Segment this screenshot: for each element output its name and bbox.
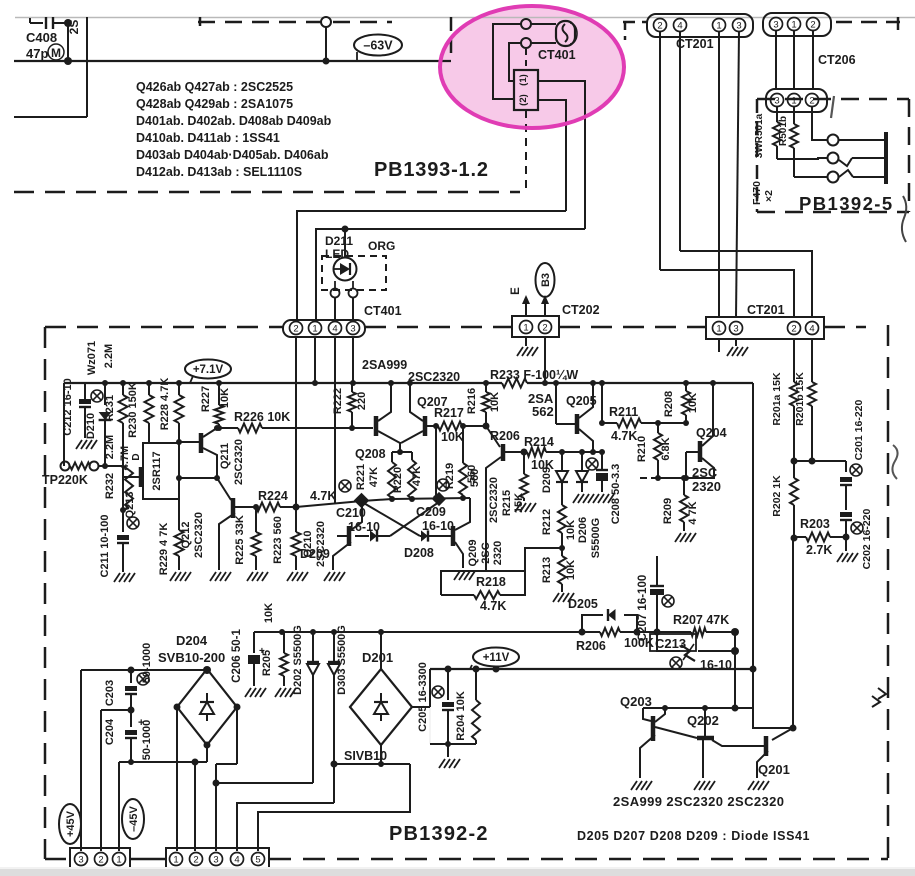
capacitor C212 xyxy=(84,383,86,401)
diode D208 xyxy=(420,535,421,537)
svg-text:D206: D206 xyxy=(577,517,589,543)
svg-text:D205: D205 xyxy=(568,597,598,611)
resistor R219 xyxy=(459,463,467,495)
wire vertical branch xyxy=(86,17,88,117)
wire C211 column xyxy=(122,466,124,532)
svg-text:2.2M: 2.2M xyxy=(103,344,115,368)
svg-text:2320: 2320 xyxy=(492,541,504,565)
node -63V xyxy=(354,35,402,56)
transistor Q203 xyxy=(643,708,651,721)
svg-text:C408: C408 xyxy=(26,30,57,45)
wire sivb line xyxy=(334,763,410,765)
board PB1393 right edge dashed xyxy=(450,17,453,61)
pin 2 xyxy=(539,321,552,334)
resistor R229 xyxy=(178,478,180,530)
svg-text:4: 4 xyxy=(234,854,239,865)
ground C211 xyxy=(114,573,120,582)
ground Q203 xyxy=(631,781,637,790)
svg-text:R214: R214 xyxy=(524,435,554,449)
wire -45 rail xyxy=(119,761,207,763)
svg-text:3: 3 xyxy=(736,20,741,31)
svg-text:D209: D209 xyxy=(300,547,330,561)
node +11V xyxy=(473,648,519,667)
pin circle lower xyxy=(521,38,531,48)
arrow E xyxy=(525,302,527,317)
wire CT202-2 down xyxy=(544,337,546,383)
board PB1392-2 left edge xyxy=(44,327,47,859)
wire R212-R213 xyxy=(561,533,563,556)
ground R229 xyxy=(170,572,176,581)
board PB1393 bottom edge dashed xyxy=(14,191,520,194)
svg-text:10K: 10K xyxy=(687,393,699,413)
resistor R211 xyxy=(617,419,641,428)
svg-text:R223 560: R223 560 xyxy=(272,516,284,564)
svg-text:D403ab D404ab·D405ab. D406ab: D403ab D404ab·D405ab. D406ab xyxy=(136,148,329,162)
oplus D210 xyxy=(91,390,103,402)
wire bridge2 bottom xyxy=(380,745,382,764)
pin 3 xyxy=(210,853,223,866)
switch contact S1 xyxy=(828,135,839,146)
capacitor C205 xyxy=(447,669,449,700)
svg-text:R219: R219 xyxy=(444,463,456,489)
wire collector bus xyxy=(643,707,753,709)
pin 1 xyxy=(788,94,801,107)
wire pin3 down xyxy=(352,337,354,383)
svg-text:Q209: Q209 xyxy=(467,540,479,567)
ground C205 xyxy=(447,744,449,757)
svg-text:C205 16-3300: C205 16-3300 xyxy=(417,662,429,732)
svg-text:–45V: –45V xyxy=(128,805,140,831)
resistor R225 xyxy=(255,507,257,532)
wire -63V bus xyxy=(14,60,451,62)
wire R211 line xyxy=(602,422,617,424)
svg-text:R224: R224 xyxy=(258,489,288,503)
svg-text:ORG: ORG xyxy=(368,239,395,253)
scan edge line xyxy=(15,17,915,19)
capacitor C209 xyxy=(432,492,446,506)
svg-text:2: 2 xyxy=(293,323,298,334)
connector CT201 top xyxy=(647,14,753,37)
svg-text:×2: ×2 xyxy=(763,190,775,202)
wire mid step xyxy=(525,548,562,571)
wire pin4 down xyxy=(334,337,336,503)
transistor Q205 xyxy=(575,414,580,434)
ground R203 xyxy=(845,537,847,551)
switch contact S3 xyxy=(828,172,839,183)
pin 3 xyxy=(75,853,88,866)
svg-text:2SR117: 2SR117 xyxy=(151,451,163,490)
wire R216 junction xyxy=(483,423,490,430)
board PB1392-2 right edge xyxy=(887,325,890,859)
svg-text:Q203: Q203 xyxy=(620,694,652,709)
svg-text:1: 1 xyxy=(716,323,721,334)
board PB1392-5 edge xyxy=(757,98,909,101)
led pin b xyxy=(349,289,358,298)
resistor R201a xyxy=(793,339,795,382)
resistor R205 xyxy=(283,632,285,653)
capacitor C202 xyxy=(840,512,852,517)
connector CT206 lower xyxy=(766,89,827,112)
svg-text:D201: D201 xyxy=(362,650,393,665)
transistor Q208 xyxy=(374,416,379,436)
svg-text:562: 562 xyxy=(532,404,554,419)
label C213 xyxy=(650,634,696,651)
oplus D207 xyxy=(586,458,598,470)
wire main 632 bus xyxy=(254,631,600,633)
connector CN3 xyxy=(70,848,130,870)
svg-text:R233 F-100¼W: R233 F-100¼W xyxy=(490,368,578,382)
oplus C211 xyxy=(127,517,139,529)
svg-text:2SC2320: 2SC2320 xyxy=(193,512,205,558)
svg-text:220: 220 xyxy=(356,392,368,410)
switch lever S3 xyxy=(839,170,853,177)
svg-text:Q426ab Q427ab : 2SC2525: Q426ab Q427ab : 2SC2525 xyxy=(136,80,293,94)
svg-text:R205: R205 xyxy=(261,650,273,676)
svg-text:R202 1K: R202 1K xyxy=(771,475,783,517)
svg-text:1: 1 xyxy=(312,323,317,334)
svg-text:4.7K: 4.7K xyxy=(310,489,336,503)
wire trio bottoms xyxy=(296,498,470,507)
wire switch2 feed xyxy=(777,158,827,159)
resistor R218 xyxy=(474,591,500,599)
svg-text:47K: 47K xyxy=(411,466,423,486)
wire pin3 down xyxy=(736,31,739,318)
svg-text:5: 5 xyxy=(255,854,260,865)
board PB1392-2 bottom edge xyxy=(45,858,70,861)
wire plug loop upper xyxy=(493,24,521,99)
wire cross a xyxy=(362,502,420,536)
svg-text:3: 3 xyxy=(213,854,218,865)
wire conn1 up xyxy=(118,762,120,851)
svg-text:2: 2 xyxy=(791,323,796,334)
svg-text:1: 1 xyxy=(116,854,121,865)
wire cap col xyxy=(845,461,847,472)
pin 4 xyxy=(674,19,687,32)
connector CT202 xyxy=(512,316,559,337)
wire trio top xyxy=(391,452,393,462)
wire bus to CT401-2 xyxy=(297,211,566,321)
transistor Q213 xyxy=(143,443,179,499)
wire R226 line xyxy=(219,427,238,429)
board edge corner xyxy=(199,17,202,26)
svg-text:R226 10K: R226 10K xyxy=(234,410,290,424)
wire sw2 to bar xyxy=(852,157,884,159)
resistor R206 xyxy=(600,628,620,636)
svg-text:16-10: 16-10 xyxy=(348,520,380,534)
wire bridge bottom xyxy=(206,745,208,762)
svg-text:1: 1 xyxy=(716,20,721,31)
svg-text:6.8K: 6.8K xyxy=(660,437,672,460)
resistor R223 xyxy=(295,507,297,532)
svg-text:F470: F470 xyxy=(751,181,763,205)
wire conn3 up xyxy=(80,670,82,851)
pin 1 xyxy=(309,322,322,335)
svg-text:R230 150K: R230 150K xyxy=(127,382,139,438)
switch common bar xyxy=(884,132,888,184)
svg-text:C208 50-3.3: C208 50-3.3 xyxy=(610,464,622,525)
pin 5 xyxy=(252,853,265,866)
wire cross b xyxy=(390,502,439,536)
resistor WR501a xyxy=(776,106,778,122)
svg-text:R220: R220 xyxy=(392,467,404,493)
wire pair to trio xyxy=(392,451,412,453)
capacitor C204 xyxy=(130,710,132,727)
svg-text:2: 2 xyxy=(809,95,814,106)
resistor R221 xyxy=(388,462,396,498)
svg-text:560: 560 xyxy=(469,469,481,487)
wire connB3 up xyxy=(215,764,217,851)
pin 3 xyxy=(347,322,360,335)
ground R223 xyxy=(287,572,293,581)
svg-text:R201a 15K: R201a 15K xyxy=(771,372,783,426)
testpoint TP220K xyxy=(61,462,70,471)
resistor R217 xyxy=(438,422,462,431)
highlight ellipse outline xyxy=(440,6,624,128)
oplus C205 xyxy=(432,686,444,698)
wire c213 branch xyxy=(657,632,680,651)
resistor R210 xyxy=(657,423,659,433)
oplus C203 xyxy=(137,673,149,685)
svg-text:D204: D204 xyxy=(176,633,208,648)
ground R225 xyxy=(247,572,253,581)
svg-text:2S: 2S xyxy=(67,20,81,35)
wire right bus down xyxy=(734,632,736,708)
svg-text:D202 S5500G: D202 S5500G xyxy=(292,625,304,695)
svg-text:2.2M: 2.2M xyxy=(104,435,116,459)
wire conn2 up xyxy=(100,710,102,851)
svg-text:C210: C210 xyxy=(336,506,366,520)
svg-text:Q428ab Q429ab : 2SA1075: Q428ab Q429ab : 2SA1075 xyxy=(136,97,293,111)
svg-text:2320: 2320 xyxy=(692,479,721,494)
transistor Q210 xyxy=(347,526,352,546)
svg-text:10K: 10K xyxy=(441,430,464,444)
svg-text:2: 2 xyxy=(542,322,547,333)
svg-text:R213: R213 xyxy=(541,557,553,583)
svg-text:47K: 47K xyxy=(368,467,380,487)
transistor Q212 xyxy=(217,478,231,500)
svg-text:D: D xyxy=(131,453,142,460)
svg-text:R211: R211 xyxy=(609,405,638,419)
svg-text:+11V: +11V xyxy=(483,652,510,664)
svg-text:3WR501a: 3WR501a xyxy=(754,113,765,158)
oplus C202 xyxy=(851,522,863,534)
svg-text:R208: R208 xyxy=(663,391,675,417)
resistor R214 xyxy=(527,448,546,457)
wire stair pin4 xyxy=(237,803,334,851)
wire switch3 feed xyxy=(794,176,827,178)
svg-text:16-10: 16-10 xyxy=(422,519,454,533)
transistor Q209 xyxy=(451,526,456,546)
capacitor C408 xyxy=(30,22,43,24)
svg-text:Q212: Q212 xyxy=(180,522,192,549)
svg-text:R212: R212 xyxy=(541,509,553,535)
wire d-cluster feed xyxy=(561,452,563,470)
pin 2 xyxy=(806,94,819,107)
svg-text:+7.1V: +7.1V xyxy=(193,364,224,376)
svg-text:SVB10-200: SVB10-200 xyxy=(158,650,225,665)
svg-text:R221: R221 xyxy=(355,464,367,490)
svg-text:C209: C209 xyxy=(416,505,446,519)
svg-text:C211 10-100: C211 10-100 xyxy=(99,515,111,578)
svg-text:3: 3 xyxy=(773,19,778,30)
svg-text:R227: R227 xyxy=(200,386,212,412)
svg-text:1: 1 xyxy=(791,19,796,30)
capacitor C207 xyxy=(656,556,658,586)
resistor R212 xyxy=(558,505,566,533)
wire plug loop lower xyxy=(509,43,521,81)
transistor Q206 xyxy=(486,426,500,447)
svg-text:R232: R232 xyxy=(104,473,116,499)
wire sw3 to bar xyxy=(853,176,884,178)
resistor R201b xyxy=(811,339,813,382)
svg-text:M: M xyxy=(51,46,61,60)
svg-text:C204: C204 xyxy=(104,718,116,745)
resistor R202 xyxy=(793,461,795,478)
svg-text:R203: R203 xyxy=(800,517,830,531)
svg-text:Q211: Q211 xyxy=(219,443,231,469)
svg-text:10K: 10K xyxy=(219,388,231,408)
resistor R207 xyxy=(691,628,706,636)
diode D207 xyxy=(581,452,583,470)
transistor Q204 xyxy=(698,441,703,462)
wire pin2 down xyxy=(659,31,661,270)
pin 4 xyxy=(806,322,819,335)
node -45V xyxy=(122,799,144,839)
svg-text:R216: R216 xyxy=(466,388,478,414)
pin 2 xyxy=(807,18,820,31)
resistor R224 xyxy=(256,503,280,512)
pin 2 xyxy=(290,322,303,335)
wire R217 to R216 xyxy=(462,425,486,427)
wire pins to lamp xyxy=(531,23,556,25)
transistor Q211 xyxy=(199,433,204,453)
svg-text:–63V: –63V xyxy=(363,39,393,53)
ground CT201-3 xyxy=(735,339,737,346)
resistor R233 xyxy=(502,379,527,388)
svg-text:C202 16-220: C202 16-220 xyxy=(861,508,873,569)
svg-text:PB1392-5: PB1392-5 xyxy=(799,193,894,214)
board edge dashed xyxy=(836,21,900,24)
transistor Q207 xyxy=(423,416,428,436)
diode D209b xyxy=(556,471,568,482)
svg-text:R206: R206 xyxy=(490,429,520,443)
bridge D204 xyxy=(177,669,237,745)
svg-text:R222: R222 xyxy=(332,388,344,414)
ground Q212 xyxy=(210,572,216,581)
pin 1 xyxy=(713,322,726,335)
capacitor C203 xyxy=(130,670,132,683)
svg-text:Q202: Q202 xyxy=(687,713,719,728)
wire main rail xyxy=(64,382,502,384)
pin 3 xyxy=(771,94,784,107)
svg-text:C203: C203 xyxy=(104,680,116,706)
svg-text:R501b: R501b xyxy=(778,116,789,146)
svg-text:Wz071: Wz071 xyxy=(86,341,98,375)
wire led to conn xyxy=(334,297,336,321)
wire pin4 down xyxy=(679,31,681,251)
capacitor C208 xyxy=(601,452,603,470)
pin 2 xyxy=(654,19,667,32)
wire C209 drop xyxy=(435,426,437,497)
wire rail corner xyxy=(752,383,754,669)
svg-text:D401ab. D402ab. D408ab D409ab: D401ab. D402ab. D408ab D409ab xyxy=(136,114,332,128)
arrow B3 xyxy=(544,302,546,317)
diode D205 xyxy=(608,609,616,621)
svg-text:D210: D210 xyxy=(85,413,97,439)
switch lever S2 xyxy=(839,158,852,166)
tolerance mark M xyxy=(48,44,64,60)
wire jog to CT201-2 xyxy=(660,270,794,318)
svg-text:R218: R218 xyxy=(476,575,506,589)
resistor R230 xyxy=(148,383,150,395)
svg-text:TP220K: TP220K xyxy=(42,473,88,487)
bridge D201 xyxy=(350,669,412,745)
wire R219 top xyxy=(462,426,464,463)
svg-text:R228 4.7K: R228 4.7K xyxy=(159,378,171,431)
wire ct206 c xyxy=(812,30,814,90)
pin 2 xyxy=(788,322,801,335)
lamp P401 xyxy=(556,21,575,46)
wire bus to CT401-1 xyxy=(316,229,585,321)
svg-text:2SC2320: 2SC2320 xyxy=(233,439,245,485)
svg-text:4 7K: 4 7K xyxy=(687,501,699,524)
svg-text:CT202: CT202 xyxy=(562,303,600,317)
svg-text:R215: R215 xyxy=(501,490,513,516)
node B3 xyxy=(536,263,555,297)
wire q204 base line xyxy=(640,477,658,479)
wire q201 base xyxy=(734,745,764,747)
wire bridge right leg xyxy=(236,707,238,764)
wire R218 box xyxy=(441,571,525,595)
wire led top xyxy=(344,229,346,257)
pen mark xyxy=(831,96,834,118)
wire top feed xyxy=(296,211,298,229)
transistor Q201 xyxy=(764,736,769,756)
svg-text:Q213: Q213 xyxy=(124,492,136,519)
pin 3 xyxy=(770,18,783,31)
svg-text:50-1000: 50-1000 xyxy=(141,720,153,760)
ground R205 xyxy=(275,688,281,697)
svg-text:CT201: CT201 xyxy=(747,303,785,317)
pin 1 xyxy=(713,19,726,32)
wire c205 drop xyxy=(429,707,431,744)
svg-text:S5500G: S5500G xyxy=(590,518,602,558)
diode D202 xyxy=(312,632,314,661)
svg-text:3: 3 xyxy=(78,854,83,865)
wire lower stub xyxy=(14,116,87,118)
connector CT206 top xyxy=(763,13,831,36)
svg-text:D209: D209 xyxy=(541,467,553,493)
pin circle upper xyxy=(521,19,531,29)
wire pin1 down xyxy=(718,31,720,318)
svg-text:D208: D208 xyxy=(404,546,434,560)
bottom scan strip xyxy=(0,869,915,876)
pin 3 xyxy=(730,322,743,335)
board edge dashed xyxy=(198,21,392,24)
wire R203 line xyxy=(794,536,806,538)
ground C206 xyxy=(245,688,251,697)
svg-text:R231: R231 xyxy=(104,395,116,421)
ground C212 xyxy=(76,440,82,449)
pen mark right xyxy=(878,688,886,699)
svg-text:3: 3 xyxy=(733,323,738,334)
svg-text:3: 3 xyxy=(774,95,779,106)
pin 2 xyxy=(95,853,108,866)
svg-text:CT401: CT401 xyxy=(364,304,402,318)
svg-text:4: 4 xyxy=(677,20,682,31)
svg-text:C207 16-100: C207 16-100 xyxy=(637,575,649,642)
wire bus step xyxy=(753,708,793,728)
